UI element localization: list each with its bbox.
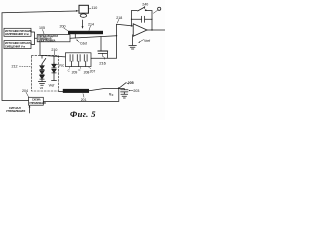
node feedback input junction <box>131 25 132 26</box>
wire clamp to bar <box>58 90 62 92</box>
svg-text:НАПРЯЖЕНИЯ Vсм: НАПРЯЖЕНИЯ Vсм <box>5 33 29 36</box>
label 240 <box>142 2 148 8</box>
wire feedback left vertical <box>130 11 132 26</box>
wire source bus <box>31 32 37 45</box>
diode stack right <box>52 57 57 81</box>
label 200 <box>60 24 68 31</box>
svg-text:Vd: Vd <box>40 86 44 90</box>
svg-text:200: 200 <box>60 24 66 28</box>
box electronics U105 <box>37 35 70 43</box>
box source1 (ИСТОЧНИК ПИТАНИЯ) <box>4 28 32 36</box>
label Vc <box>109 92 114 97</box>
wire Q216 gate lead <box>102 53 104 59</box>
label 110 <box>89 6 98 10</box>
capacitor box 207-209 <box>65 53 91 67</box>
svg-text:C: C <box>112 94 114 97</box>
arrow beam down <box>82 20 84 29</box>
wire Q216 source leg <box>100 37 102 51</box>
transducer box 110 <box>79 5 88 13</box>
svg-text:207: 207 <box>90 69 96 73</box>
ground under opamp <box>129 46 137 50</box>
svg-text:209: 209 <box>72 70 78 74</box>
label circle top-right <box>153 7 160 13</box>
label Vref opamp <box>138 39 150 43</box>
label 210 <box>51 48 57 56</box>
wire output <box>147 29 165 31</box>
wire Q216 drain leg <box>107 51 109 58</box>
transistor Q216 gate bar <box>98 52 107 54</box>
box control 204 <box>29 97 46 105</box>
svg-text:201: 201 <box>81 98 87 102</box>
wire sense vertical <box>116 24 118 58</box>
svg-text:Фиг. 5: Фиг. 5 <box>70 109 96 119</box>
wire bar to node <box>89 88 119 90</box>
capacitor C207 <box>84 55 87 67</box>
ground under C203 <box>121 94 128 98</box>
svg-text:Vref: Vref <box>49 84 55 88</box>
svg-text:216: 216 <box>99 61 106 66</box>
label Vcc <box>53 62 64 67</box>
wire electronics to clamp <box>40 42 65 57</box>
wire Q216 loop bottom <box>91 57 117 59</box>
transistor Q216 channel <box>98 50 108 52</box>
capacitor feedback branch <box>131 16 152 22</box>
node output junction <box>151 29 152 30</box>
transducer lens ellipse <box>80 14 86 17</box>
ground clamp left <box>38 82 45 90</box>
capacitor C208 <box>77 55 80 67</box>
wire top bus <box>2 11 76 13</box>
label 204 <box>22 89 29 97</box>
label 203 <box>129 89 140 93</box>
arrowhead into transducer <box>76 10 79 12</box>
wire sense line <box>70 36 117 39</box>
text control signal <box>6 105 30 113</box>
label cap 207 <box>88 67 95 74</box>
switch 240 top branch <box>131 7 152 11</box>
label 218 <box>116 16 122 23</box>
svg-text:212: 212 <box>12 65 18 69</box>
label 214 <box>88 22 94 30</box>
wire bar tap <box>74 34 76 38</box>
label 201 <box>81 94 87 102</box>
svg-text:105: 105 <box>39 26 45 30</box>
wire left bus <box>2 13 29 101</box>
switch 205 <box>118 83 126 89</box>
svg-text:УПРАВЛЕНИЯ: УПРАВЛЕНИЯ <box>29 102 46 105</box>
capacitor C209 <box>70 55 73 67</box>
label 205 <box>127 81 134 85</box>
svg-text:110: 110 <box>92 6 98 10</box>
capacitor C203 <box>119 89 128 95</box>
switch in clamp left <box>42 56 46 65</box>
dashed box 212 <box>31 55 58 91</box>
label Cdet <box>76 40 87 46</box>
label 105 <box>39 26 45 34</box>
svg-text:Cdet: Cdet <box>80 42 87 46</box>
svg-text:204: 204 <box>22 89 28 93</box>
box source2 (ИСТОЧНИК СИГНАЛА) <box>4 41 32 49</box>
wire feedback right vertical <box>151 11 153 30</box>
wire opamp plus input down <box>132 35 134 46</box>
svg-text:Vcc: Vcc <box>59 63 65 67</box>
svg-text:214: 214 <box>88 22 94 26</box>
electrode bar 200 <box>68 31 103 34</box>
svg-text:ЭЛЕКТРОНИКА: ЭЛЕКТРОНИКА <box>38 40 56 43</box>
svg-text:Vref: Vref <box>144 39 150 43</box>
svg-text:C: C <box>78 68 80 72</box>
wire opamp input <box>117 24 134 26</box>
diode stack left <box>40 64 44 81</box>
wire control to Vc <box>43 89 119 102</box>
node sense junction <box>116 35 117 36</box>
electrode bar 201 <box>63 89 89 93</box>
label 212 <box>12 65 32 69</box>
svg-text:203: 203 <box>133 89 139 93</box>
labels cap C209 <box>68 67 78 75</box>
svg-text:240: 240 <box>142 2 148 6</box>
svg-text:208: 208 <box>84 70 90 74</box>
svg-text:УПРАВЛЕНИЯ: УПРАВЛЕНИЯ <box>6 109 25 113</box>
svg-text:218: 218 <box>116 16 122 20</box>
svg-text:C: C <box>68 69 70 73</box>
node feedback cap junction <box>151 19 152 20</box>
svg-text:СМЕЩЕНИЯ Vтх: СМЕЩЕНИЯ Vтх <box>5 46 26 49</box>
labels cap C208 <box>78 67 89 75</box>
op-amp U220 triangle <box>133 24 147 36</box>
